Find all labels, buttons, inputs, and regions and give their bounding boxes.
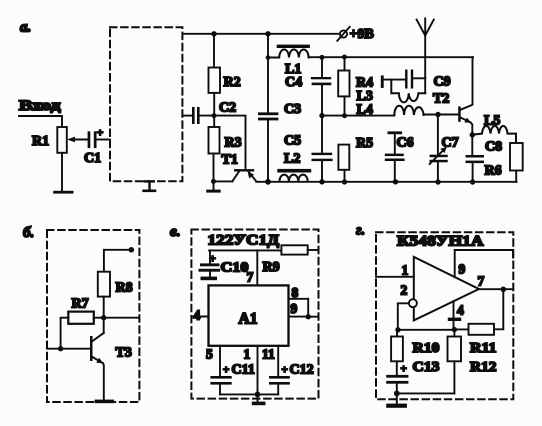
node dot rail2 x322 [320,55,325,60]
capacitor C8 [466,135,503,182]
resistor R2 [209,68,241,93]
svg-text:9: 9 [459,262,466,277]
resistor R1 (potentiometer) [32,127,67,153]
capacitor C12 [269,363,314,395]
pin 4 wire [191,308,208,323]
node dot ground g [394,391,400,397]
svg-text:4: 4 [194,308,201,323]
svg-text:7: 7 [247,270,254,285]
resistor R4 [338,57,373,116]
wire bottom rail of section a [256,181,516,183]
svg-text:L2: L2 [284,152,300,167]
svg-text:R2: R2 [224,75,241,90]
svg-text:C6: C6 [397,136,414,151]
svg-text:C3: C3 [284,102,301,117]
pin 7 output wire [478,274,514,290]
svg-text:К548УН1А: К548УН1А [397,234,484,250]
svg-text:1: 1 [244,347,251,362]
resistor R6 [485,143,523,182]
node dot rail2 x344 [342,55,347,60]
node dot output top [129,247,135,253]
svg-text:8: 8 [292,285,299,300]
wire bottom bus v [220,393,278,395]
wire mid rail y115 [322,115,394,117]
svg-text:C10: C10 [221,261,249,276]
svg-text:T2: T2 [433,92,449,107]
svg-text:C8: C8 [485,140,502,155]
wire R7 right to collector line [94,317,104,319]
node dot bottom x438 [435,179,440,184]
inductor L5 [472,114,516,144]
wire rail2 corner to T2 collector [461,57,473,109]
block dashed box b [47,230,139,402]
svg-text:4: 4 [457,303,464,318]
svg-text:R8: R8 [116,281,133,296]
terminal plate left of tank [381,75,384,88]
wire tank top [384,79,405,81]
inductor L2 with core [277,152,311,182]
node dot bottom x268 [265,179,271,185]
resistor R5 [338,136,373,182]
svg-text:R12: R12 [470,360,497,375]
wire output to R11 [494,289,503,329]
svg-text:+: + [223,364,229,376]
resistor R12 [448,330,497,394]
svg-text:T1: T1 [222,153,238,168]
svg-text:R10: R10 [413,341,440,356]
ground v [252,394,266,405]
svg-text:R7: R7 [72,297,89,312]
svg-text:R3: R3 [225,136,242,151]
capacitor C4 [285,57,331,115]
node dot bottom x395 [393,179,398,184]
wire feedback bus [397,329,454,331]
svg-text:A1: A1 [239,311,258,328]
capacitor C2 [182,101,236,125]
svg-text:7: 7 [478,274,485,289]
node dot mid x344 [342,113,347,118]
node dot R10 top [395,327,400,332]
svg-text:+: + [282,364,288,376]
svg-text:T3: T3 [116,346,132,361]
capacitor C5 [284,116,333,182]
op-amp U1 triangle [414,257,479,321]
capacitor C6 [385,131,414,181]
node dot output g [501,287,507,293]
pin 4 ground [448,301,464,329]
block dashed box g [376,232,513,399]
pin 9 wire [289,299,319,320]
svg-text:2: 2 [401,283,408,298]
wire C2 to T1 base [200,116,246,170]
svg-text:122УС1Д: 122УС1Д [208,233,280,249]
node dot R12 top [452,327,457,332]
svg-text:1: 1 [402,263,409,278]
wire top rail to +9V [182,33,339,35]
capacitor C10 (electrolytic) [199,250,249,280]
transistor T3 [90,333,132,400]
capacitor C1 (electrolytic) [84,127,103,166]
node dot collector junction [101,315,106,320]
node dot x438 top [435,112,440,117]
inductor L1 with core [268,45,310,77]
svg-text:C1: C1 [84,151,101,166]
node dot bottom x344 [342,179,347,184]
svg-text:C4: C4 [285,75,302,90]
block I dashed box [110,27,182,181]
wire R2 top [213,34,215,68]
svg-text:б.: б. [23,225,34,241]
svg-text:R6: R6 [485,164,502,179]
ground under R3 [206,190,221,193]
svg-text:в.: в. [170,224,180,240]
svg-text:+: + [210,253,216,265]
node C2 junction [212,113,217,118]
pin 8 wire [289,285,309,300]
wire rail2 [309,56,473,58]
svg-text:C13: C13 [413,360,440,375]
terminal +9V [337,27,374,42]
svg-text:L5: L5 [484,114,500,129]
block label I [142,180,156,192]
block dashed box v [191,230,318,399]
svg-text:C9: C9 [434,75,451,90]
capacitor C9 [405,70,451,90]
wire output mid [104,317,138,319]
capacitor C7 (trimmer) [430,115,459,183]
ground under R1 [53,191,73,194]
svg-text:R1: R1 [32,134,49,149]
node dot T2 emitter [470,132,475,137]
svg-text:R9: R9 [263,260,280,275]
wire L4 to T2 base [424,114,459,116]
svg-text:C12: C12 [290,363,314,378]
pin 1 wire [244,346,258,395]
pin 11 wire [262,346,278,376]
wire C1 to block I [97,139,111,141]
resistor R8 [98,272,133,333]
resistor R9 [263,245,319,275]
node dot bottom x472 [470,179,475,184]
transistor T1 [222,153,257,182]
svg-text:9: 9 [291,301,298,316]
node junction L1 left [266,55,271,60]
wire T1 emitter to R3 line [214,180,233,182]
svg-text:5: 5 [206,347,213,362]
svg-text:+: + [97,127,103,139]
svg-text:+9В: +9В [350,27,374,42]
svg-text:C11: C11 [232,363,255,378]
node dot base junction [58,346,63,351]
resistor R7 [68,297,94,324]
svg-text:а.: а. [20,20,31,36]
svg-text:г.: г. [356,223,365,239]
wire pin 2 feedback [398,303,409,330]
node junction x268 top [265,31,270,36]
inductor L4 winding [394,106,423,115]
capacitor C11 [210,363,254,395]
svg-text:L4: L4 [357,103,373,118]
wire x268 down [267,34,269,113]
antenna [417,19,434,94]
inductor L3 winding [391,80,425,103]
pin 9 wire g [455,250,513,277]
svg-text:+: + [401,363,407,375]
svg-text:R11: R11 [470,341,497,356]
wire R2 to R3 [213,93,215,127]
wire base input [47,348,90,350]
ground T3 emitter [95,400,115,404]
transistor T2 [433,92,472,135]
svg-text:R5: R5 [356,136,373,151]
wire R8 top [104,250,131,272]
svg-text:Вход: Вход [19,98,61,114]
pin 1 wire g [376,263,414,278]
wire input [19,116,62,127]
wire R7 left leg [61,318,69,349]
resistor R10 [391,330,439,362]
ground g [386,393,407,407]
svg-text:C2: C2 [219,101,236,116]
pin 5 wire [206,346,220,376]
svg-text:11: 11 [262,347,275,362]
op-amp block A1 [209,285,289,345]
capacitor C13 (electrolytic) [386,360,439,393]
wire top rail v [209,249,281,251]
pin 2 bubble [401,283,417,308]
node dot ground v [255,392,261,398]
resistor R11 [454,324,496,356]
wire pin 7 [256,250,258,285]
node junction R2 top [211,31,216,36]
node dot bottom x322 [319,179,324,184]
wiper arrow of R1 [67,137,88,143]
wire R3 bottom [213,154,215,190]
wire bottom bus g [397,392,455,394]
svg-text:C5: C5 [284,134,301,149]
node dot x322 mid [319,113,324,118]
resistor R3 [209,127,242,154]
svg-text:C7: C7 [442,136,459,151]
wire R1 bottom [61,153,63,191]
capacitor C3 [258,102,301,182]
